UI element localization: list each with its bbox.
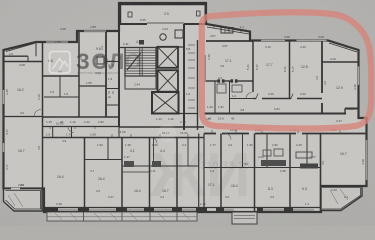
loggia bottom-right (321, 186, 362, 211)
loggia hatch (8, 189, 348, 207)
background mottling (0, 0, 1, 1)
balcony TR bottom wall (322, 61, 359, 63)
tick marks along corridor (50, 45, 340, 138)
watermark text (76, 49, 142, 74)
room divider 2 (289, 41, 291, 99)
riser room walls (106, 61, 119, 63)
corridor left stub bottom wall (43, 126, 120, 128)
balcony row rail line (47, 216, 197, 218)
staircase (125, 48, 156, 77)
hall divider (79, 85, 106, 87)
loggia bottom / room top wall (206, 40, 253, 42)
small rooms under left corridor (43, 127, 205, 138)
tower bottom wall right (184, 23, 206, 25)
balcony TR glazing (329, 43, 357, 52)
bath divider (59, 76, 61, 97)
elevator shaft C (152, 92, 179, 114)
elevator shaft A (158, 47, 179, 68)
core bottom wall (179, 113, 198, 115)
right room bottom wall (321, 185, 367, 187)
stair arrow (127, 53, 141, 70)
watermark faint ring (158, 124, 176, 142)
bath dividers (214, 81, 216, 114)
balcony row hatch (55, 213, 190, 220)
elevator shaft B (158, 70, 179, 92)
loggia BL glazing (6, 191, 41, 210)
vent box (175, 30, 183, 38)
WC circle (160, 34, 166, 40)
bath fixtures dark left (124, 161, 134, 167)
wall between left rooms and middle room (78, 31, 80, 117)
loggia glazing diagonal (207, 27, 249, 34)
dims above corridor left (46, 120, 104, 124)
balcony TL step (27, 56, 29, 61)
bathroom fixtures right apartment (217, 84, 283, 156)
riser column wall (105, 31, 107, 117)
balcony TL bottom wall (4, 55, 29, 57)
left column right wall (42, 42, 44, 190)
vent box on loggia (221, 28, 233, 34)
loggia BR inner line (322, 188, 361, 210)
door arcs (34, 93, 252, 144)
tower bottom wall left (119, 23, 147, 25)
bottom-left apartment walls (85, 134, 205, 213)
bottom rooms bottom wall (inner line) (44, 207, 321, 209)
tower wall reinforcement (119, 3, 207, 24)
core left wall (118, 24, 120, 127)
door jambs (218, 80, 220, 82)
dimension labels (9, 18, 354, 206)
room K bottom wall (43, 75, 80, 77)
bottom-right apartment walls (204, 134, 367, 213)
room R1 top wall (4, 61, 43, 63)
balcony row bottom (47, 212, 197, 221)
shaft wall (197, 40, 199, 130)
room divider 1 (252, 41, 254, 92)
rotated dims (5, 45, 365, 170)
bottom outer wall pier segments (44, 208, 293, 212)
watermark logo (50, 52, 71, 74)
corridor mid walls (119, 126, 204, 128)
corridor right bottom wall (204, 133, 367, 135)
walls: core and tower (119, 23, 206, 130)
tower interior marks (128, 12, 132, 17)
door leaf marks (256, 94, 258, 99)
bath block top wall (205, 80, 218, 82)
top-right apartment (highlighted) (205, 26, 359, 114)
kitchen icon (97, 57, 104, 64)
windows: thin double lines (4, 31, 367, 189)
entrance porch (232, 212, 257, 224)
red marker highlight (202, 12, 371, 128)
room labels (17, 12, 347, 193)
tower balcony rail (147, 22, 184, 24)
rooms bottom wall (253, 98, 256, 100)
left room wall to loggia (43, 189, 45, 213)
bath fixtures dark right (261, 160, 286, 166)
R1/R2 divider (4, 116, 43, 118)
R2 bottom wall (4, 188, 43, 190)
bottom window sills (58, 209, 314, 211)
hall icon (139, 40, 144, 45)
balcony TL glazing (6, 44, 34, 52)
core right wall (183, 24, 185, 130)
loggia bottom-left (4, 189, 43, 212)
top-left apartment walls (4, 31, 120, 209)
hall wall (119, 47, 125, 49)
room divider 3 (321, 41, 323, 94)
loggia right wall (249, 32, 251, 42)
bath bottom (44, 96, 79, 98)
scan noise (0, 0, 1, 1)
stair landing room (125, 76, 156, 89)
corridor right top wall (204, 113, 346, 115)
corridor left stub top wall (43, 116, 120, 118)
